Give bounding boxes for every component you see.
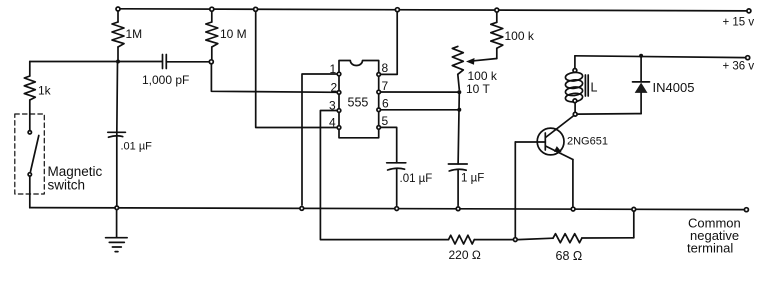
wire coil top to +36V rail [574, 56, 576, 68]
wire threshold node down to C4 [458, 92, 459, 164]
svg-text:6: 6 [382, 97, 389, 111]
node terminal +15V end circle [747, 9, 751, 13]
node terminal +36V end circle [746, 56, 750, 60]
node junction collector node [573, 112, 577, 116]
pin 3 circle [337, 109, 341, 113]
wire pin6 to threshold node [381, 109, 459, 111]
node junction 100k top on +15V rail [495, 8, 499, 12]
wire diode anode to collector node [578, 113, 641, 116]
switch contact bottom [28, 173, 31, 176]
wire collector node to coil bottom [574, 103, 576, 111]
pin 7 circle [377, 90, 381, 94]
node junction 10M top on +15V rail [210, 7, 214, 11]
svg-text:220 Ω: 220 Ω [449, 248, 481, 262]
svg-text:IN4005: IN4005 [653, 80, 695, 95]
op-amp/timer U1 555 body [339, 61, 379, 138]
node junction emitter on ground rail [571, 207, 575, 211]
resistor R 68 ohm [518, 234, 634, 263]
wire pin1 to ground rail [302, 74, 337, 205]
capacitor C .01 uF (pin5 bypass) [387, 163, 433, 206]
node junction dot at 1M bottom [116, 60, 120, 64]
wire pin4 reset up to +15V rail [256, 12, 337, 128]
svg-text:.01 µF: .01 µF [121, 141, 153, 153]
svg-text:1M: 1M [126, 27, 143, 41]
node junction pin1 on ground rail [300, 207, 304, 211]
wire node A horizontal (1k / 1M / C1 node) [30, 61, 162, 63]
svg-text:.01 µF: .01 µF [400, 173, 433, 185]
svg-text:10 T: 10 T [466, 82, 490, 96]
svg-text:+ 36 v: + 36 v [723, 61, 755, 73]
svg-text:1 µF: 1 µF [461, 173, 484, 185]
svg-text:terminal: terminal [687, 241, 733, 256]
svg-text:8: 8 [382, 61, 389, 75]
node junction C3 on ground rail [395, 207, 399, 211]
wire +15V top rail [118, 9, 747, 11]
svg-text:100 k: 100 k [505, 29, 535, 43]
node junction base node [513, 238, 517, 242]
node junction 1M top on +15V rail [116, 7, 120, 11]
wire common ground rail [30, 208, 745, 210]
node junction C1 on ground rail [115, 206, 119, 210]
wire 1000pF to 10M bottom [166, 61, 208, 63]
wire 100k to pot wiper (arrow) [470, 59, 497, 62]
node junction pin6/threshold [457, 108, 461, 112]
node junction pin7/pot [457, 90, 461, 94]
pin 1 circle [337, 72, 341, 76]
wire switch to ground rail [29, 177, 31, 208]
svg-text:100 k: 100 k [468, 69, 498, 83]
wire 220 row: resistor R 220 ohm [449, 235, 513, 262]
svg-text:5: 5 [382, 114, 389, 128]
wire emitter down to ground rail [572, 160, 574, 208]
capacitor C 1,000 pF [142, 55, 189, 88]
pin 5 circle [377, 126, 381, 130]
resistor R 1M [112, 12, 142, 62]
capacitor C 1 uF [448, 164, 484, 206]
node junction 68 ohm on ground rail [632, 207, 636, 211]
pin 8 circle [377, 73, 381, 77]
diode D1 1N4005 [633, 56, 695, 114]
switch contact top [28, 131, 31, 134]
potentiometer R 100k 10T [452, 46, 498, 96]
svg-text:555: 555 [348, 96, 369, 110]
wire pin7 to pot bottom node [381, 91, 459, 93]
wire pin8 up to +15V rail [381, 12, 397, 75]
svg-text:1k: 1k [38, 84, 52, 98]
svg-text:2NG651: 2NG651 [567, 136, 608, 148]
node junction C4 on ground rail [456, 207, 460, 211]
pin 6 circle [377, 108, 381, 112]
node junction pin8 line on +15V rail [395, 8, 399, 12]
wire base lead [515, 141, 545, 143]
resistor R 1k [24, 62, 51, 131]
svg-text:7: 7 [382, 79, 389, 93]
inductor L coil [565, 69, 597, 103]
node junction diode top on +36V rail [639, 54, 643, 58]
resistor R 100k (to +15V) [491, 12, 535, 59]
wire pin3 output down to 220 ohm row [320, 111, 448, 240]
wire 68 ohm up to ground rail [633, 211, 635, 238]
node terminal common rail end circle [744, 208, 748, 212]
svg-text:L: L [591, 81, 598, 95]
capacitor C .01 uF (left) [108, 62, 152, 206]
wire pin5 down to C3 [381, 127, 397, 162]
switch S1 magnetic (dashed enclosure) [15, 114, 45, 194]
svg-text:10 M: 10 M [220, 27, 247, 41]
transistor Q1 2NG651 [537, 115, 608, 160]
wire base vertical from base node up to transistor base [514, 142, 516, 237]
switch blade [31, 136, 39, 172]
svg-text:1,000 pF: 1,000 pF [142, 73, 189, 87]
svg-text:+ 15 v: + 15 v [723, 17, 755, 29]
resistor R 10M [206, 12, 247, 59]
svg-text:68 Ω: 68 Ω [556, 249, 583, 263]
wire +36V rail [575, 56, 746, 58]
node junction pin4 line on +15V rail [254, 7, 258, 11]
ground [106, 210, 128, 252]
svg-text:switch: switch [48, 178, 86, 193]
pin 4 circle [337, 126, 341, 130]
wire trigger node to pin2 [211, 65, 336, 93]
pin 2 circle [337, 91, 341, 95]
node junction open circle at 10M bottom (trigger branch) [209, 60, 213, 64]
